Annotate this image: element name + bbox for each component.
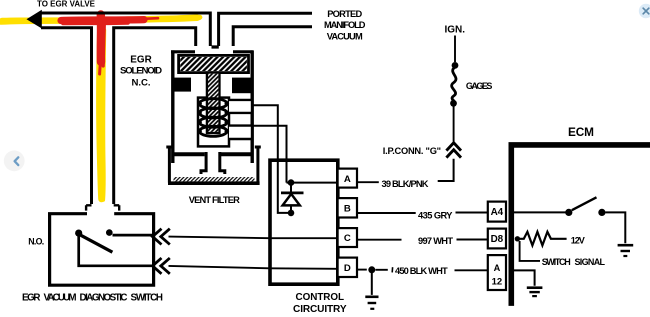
wire: solenoid terminal 2 to control circuitry (row A) [252, 126, 287, 183]
I.P. connector chevrons [446, 143, 461, 158]
ECM terminal box A 12 [488, 255, 506, 290]
svg-text:B: B [344, 204, 351, 215]
junction dot row A [288, 179, 295, 186]
label: PORTED MANIFOLD VACUUM [324, 9, 366, 41]
svg-text:CONTROL: CONTROL [296, 292, 345, 303]
svg-text:DIAGNOSTIC: DIAGNOSTIC [80, 292, 128, 303]
svg-text:I.P.CONN. "G": I.P.CONN. "G" [383, 146, 441, 156]
gages feed dot top [452, 62, 459, 69]
solenoid bottom plate [173, 152, 253, 156]
terminal box B [338, 198, 357, 217]
svg-text:997 WHT: 997 WHT [418, 236, 453, 246]
junction dot row D [368, 266, 375, 273]
wire: ported vacuum hose top wall [219, 13, 312, 46]
svg-text:MANIFOLD: MANIFOLD [324, 20, 366, 30]
ECM switch arm [572, 197, 597, 210]
vent filter cup left lip [166, 146, 172, 182]
wire: hose top wall to solenoid left port [41, 13, 210, 46]
vent filter cup right lip [255, 146, 261, 182]
control circuitry box [270, 160, 338, 284]
wire: row B to 435 GRY [357, 212, 416, 214]
wire: 435 GRY to ECM A4 [456, 212, 488, 214]
svg-text:ECM: ECM [568, 125, 594, 139]
vent filter cup bottom [168, 181, 260, 185]
hose cuff left at switch [86, 205, 91, 210]
wire: switch to ground [605, 212, 625, 243]
solenoid coil block left [173, 78, 191, 92]
label: CONTROL CIRCUITRY [293, 292, 347, 315]
svg-text:SOLENOID: SOLENOID [120, 66, 162, 77]
wire: 39 BLK/PNK to I.P. connector [438, 159, 454, 181]
wire: switch upper to control box (row C) [169, 237, 338, 239]
ECM terminal box D8 [488, 229, 506, 249]
wire: ported vacuum hose bottom wall [233, 27, 312, 46]
ground below A 12 [527, 288, 543, 296]
solenoid U1 housing top edge [171, 47, 253, 52]
UI nav button left [4, 150, 25, 171]
svg-text:IGN.: IGN. [445, 24, 466, 35]
ECM box corner [511, 145, 650, 306]
wire: IGN down [454, 36, 456, 63]
ECM terminal box A4 [488, 202, 506, 222]
connector chevrons lower wire [153, 258, 170, 274]
svg-text:39 BLK/PNK: 39 BLK/PNK [382, 179, 429, 189]
wire: row D to junction [357, 269, 367, 271]
stray tick before 450 [391, 267, 393, 272]
solenoid plunger stem (hatched) [207, 73, 220, 134]
svg-text:12V: 12V [571, 235, 585, 245]
wire: junction to 450 BLK WHT [376, 269, 388, 271]
arrowhead to EGR valve [27, 10, 42, 29]
svg-text:SWITCH: SWITCH [542, 257, 571, 267]
svg-text:D8: D8 [491, 234, 504, 245]
switch contact dot 2 [106, 229, 113, 236]
highlighter yellow end blob [193, 15, 203, 21]
resistor R1 (12V pull-up) [517, 232, 566, 246]
solenoid coil block right [232, 78, 252, 94]
gages feed dot bottom [450, 100, 457, 107]
svg-text:A: A [494, 263, 501, 273]
svg-text:CIRCUITRY: CIRCUITRY [293, 304, 347, 315]
wire: switch upper contact right [113, 234, 154, 237]
svg-text:N.C.: N.C. [132, 78, 151, 89]
label: EGR SOLENOID N.C. [120, 55, 162, 89]
svg-text:12: 12 [492, 277, 503, 288]
gages fusible link squiggle [452, 67, 456, 102]
svg-text:A: A [344, 174, 351, 185]
svg-text:SIGNAL: SIGNAL [575, 257, 606, 267]
solenoid coil terminal pocket 2 [229, 126, 252, 139]
ground below junction D [365, 297, 378, 309]
solenoid housing right wall [250, 50, 253, 163]
junction dot row B [288, 210, 295, 217]
solenoid vent neck right [220, 152, 225, 174]
solenoid coil terminal pocket 1 [229, 100, 252, 113]
switch arm [80, 235, 113, 253]
wire: junction D down to ground [371, 272, 373, 295]
highlighter red horizontal stroke [61, 18, 158, 23]
svg-text:435 GRY: 435 GRY [418, 210, 453, 220]
wire: 997 WHT to ECM D8 [457, 239, 488, 241]
solenoid spring coils [199, 99, 227, 137]
svg-text:EGR: EGR [22, 292, 41, 303]
svg-text:A4: A4 [491, 207, 504, 218]
terminal box D [338, 258, 357, 277]
wire: A 12 to ground [514, 270, 535, 285]
wire: row A to 39 BLK/PNK [357, 181, 379, 183]
wire: row C to 997 WHT [357, 239, 402, 241]
wire: branch right wall + hose bottom wall east [114, 28, 196, 204]
terminal box A [338, 169, 357, 188]
solenoid armature (hatched) [179, 55, 249, 72]
solenoid vent neck left [201, 152, 206, 174]
svg-text:EGR: EGR [130, 55, 152, 66]
svg-text:450 BLK WHT: 450 BLK WHT [395, 266, 448, 276]
diode CR1 (between rows A and B) [290, 184, 292, 192]
terminal box C [338, 228, 357, 247]
ECM switch contact dot right [598, 209, 605, 216]
EGR vacuum diagnostic switch box [50, 214, 154, 286]
highlighter yellow horizontal stroke (to EGR valve hose) [1, 17, 200, 21]
wire: A4 to ECM switch [514, 211, 566, 213]
wire: gages to I.P. connector [453, 106, 455, 142]
solenoid spring frame [198, 98, 229, 147]
vent filter element (hatched strip) [174, 177, 255, 181]
wire: hose bottom wall west + branch left wall [41, 28, 92, 204]
hose cuff right at switch [114, 205, 120, 210]
ground right of ECM switch [618, 245, 634, 256]
svg-text:SWITCH: SWITCH [131, 292, 164, 303]
svg-text:GAGES: GAGES [466, 81, 493, 91]
svg-text:C: C [344, 233, 351, 244]
junction dot at D8 resistor [515, 236, 520, 241]
svg-text:N.O.: N.O. [28, 237, 44, 247]
solenoid housing left wall [171, 50, 174, 163]
wire: 450 BLK WHT to ECM A 12 [455, 269, 488, 271]
svg-text:TO EGR VALVE: TO EGR VALVE [37, 0, 95, 9]
wire: row A inside box [287, 182, 338, 184]
wire: switch signal pointer [520, 241, 540, 261]
switch contact dot 1 [75, 230, 82, 237]
highlighter red vertical stroke (T mark) [100, 15, 105, 75]
highlighter yellow vertical stroke (hose down to switch) [99, 24, 104, 200]
svg-text:D: D [344, 263, 351, 274]
connector chevrons upper wire [153, 229, 170, 245]
svg-text:VENT FILTER: VENT FILTER [189, 195, 240, 205]
svg-text:VACUUM: VACUUM [327, 31, 363, 41]
ECM switch contact dot left [565, 209, 572, 216]
svg-text:PORTED: PORTED [327, 9, 362, 19]
wire: switch lower contact down and right [79, 235, 154, 266]
svg-text:VACUUM: VACUUM [44, 292, 77, 303]
UI close button top right [639, 4, 650, 18]
wire: switch lower to control box (row D) [169, 266, 338, 269]
wire: solenoid terminal 1 to control circuitry (row B) [252, 105, 288, 213]
